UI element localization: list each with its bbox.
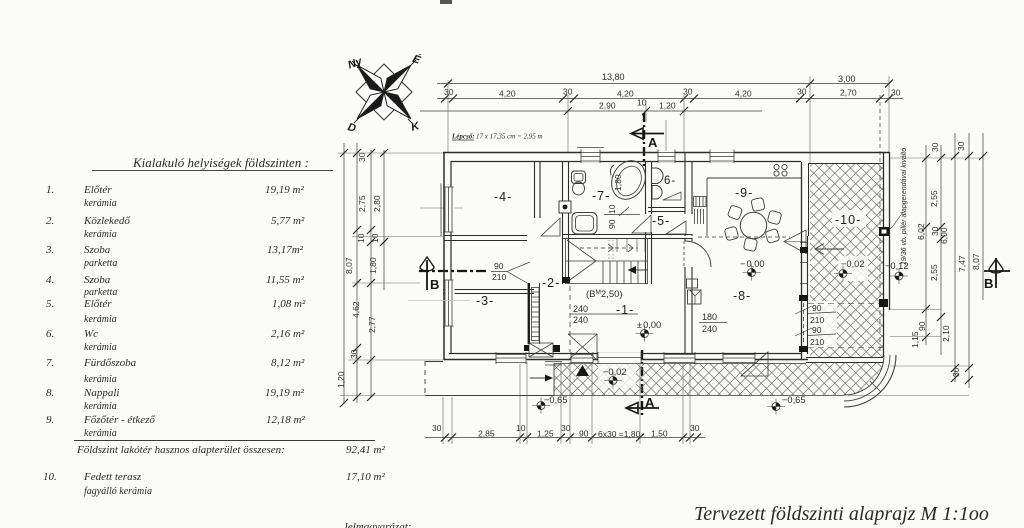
interior wall V4 (5,6 | 9) xyxy=(685,152,692,236)
walkway hatch xyxy=(554,363,844,395)
window bottom wall room8 b xyxy=(723,352,755,364)
top edge scan mark xyxy=(440,0,452,4)
black pillar room8 wall top xyxy=(799,295,808,301)
door arc room8 xyxy=(683,241,685,267)
top dimension extension lines xyxy=(448,76,889,163)
svg-text:10: 10 xyxy=(637,98,647,108)
kitchen counter line xyxy=(707,178,801,236)
svg-text:10: 10 xyxy=(356,233,366,243)
interior wall H1 (room4 bottom) xyxy=(444,236,534,241)
chair 2 xyxy=(751,197,765,211)
level -0,02 terrace xyxy=(834,259,865,282)
dashed extension at x880 xyxy=(879,95,881,163)
wc toilet room6 xyxy=(652,168,664,184)
row 4 xyxy=(46,274,54,286)
svg-text:2,10: 2,10 xyxy=(941,325,951,342)
svg-text:1,80: 1,80 xyxy=(613,174,623,191)
window top wall 1 xyxy=(577,148,604,164)
svg-text:30: 30 xyxy=(956,141,966,151)
wall top exterior xyxy=(443,152,889,154)
svg-text:2,85: 2,85 xyxy=(478,429,495,439)
window left wall room3 xyxy=(443,280,455,326)
top dimension line 2 (room chain) xyxy=(437,87,903,103)
level ±0,00 room1 xyxy=(636,320,662,342)
larder shelf (ladder symbol) xyxy=(532,288,540,341)
svg-text:210: 210 xyxy=(810,337,824,347)
wall left exterior xyxy=(443,152,445,360)
flue square with dot xyxy=(559,201,571,213)
svg-text:240: 240 xyxy=(702,324,717,334)
svg-text:210: 210 xyxy=(492,272,506,282)
terrace door swing triangle xyxy=(784,230,806,254)
black pillar terrace right lower xyxy=(879,299,888,307)
room8/terrace window mullion ticks xyxy=(800,243,808,284)
door dim 90/210 terrace upper xyxy=(810,303,824,347)
svg-text:6x30 =1,80: 6x30 =1,80 xyxy=(598,429,641,439)
svg-text:6-: 6- xyxy=(664,175,676,187)
svg-text:90: 90 xyxy=(579,429,589,439)
svg-text:2,75: 2,75 xyxy=(357,195,367,212)
dining table xyxy=(740,212,766,238)
interior wall 6|5 xyxy=(648,208,685,212)
section marker B left xyxy=(419,257,486,292)
svg-text:±0,00: ±0,00 xyxy=(637,320,661,330)
bathtub xyxy=(605,155,651,205)
svg-text:30: 30 xyxy=(951,367,961,377)
row 7 xyxy=(46,357,54,369)
svg-text:30: 30 xyxy=(357,152,367,162)
svg-text:19/36 vb. pillér alapgerendáva: 19/36 vb. pillér alapgerendával kiváltó xyxy=(901,148,908,265)
chair 3 xyxy=(767,210,782,225)
svg-text:D: D xyxy=(346,121,357,135)
svg-text:30: 30 xyxy=(930,142,940,152)
svg-text:1,50: 1,50 xyxy=(651,429,668,439)
right side rotated note xyxy=(901,148,908,265)
entrance opening xyxy=(598,352,641,364)
faint erased line left of plan xyxy=(408,300,470,302)
entrance approach arrow xyxy=(530,377,548,379)
row 8 xyxy=(46,387,54,399)
terrace right wall xyxy=(883,152,885,357)
right chain labels (rotated) xyxy=(910,141,981,377)
svg-text:−0,00: −0,00 xyxy=(740,259,765,269)
svg-text:1,80: 1,80 xyxy=(368,257,378,274)
svg-text:-5-: -5- xyxy=(652,214,670,228)
wall room8 right / terrace boundary xyxy=(801,162,803,360)
svg-text:−0,65: −0,65 xyxy=(544,395,568,405)
chair 4 xyxy=(765,228,780,243)
svg-text:2,55: 2,55 xyxy=(929,190,939,207)
row 10 xyxy=(43,471,57,483)
svg-text:K: K xyxy=(410,120,422,134)
level -0,65 right xyxy=(767,395,806,415)
svg-text:4,20: 4,20 xyxy=(617,89,634,99)
svg-text:-3-: -3- xyxy=(476,294,494,308)
row 2 xyxy=(46,215,54,227)
corner hatch wedge xyxy=(844,355,884,395)
svg-text:B: B xyxy=(984,276,993,291)
bottom dimension line xyxy=(425,423,705,442)
drawing title xyxy=(694,503,989,526)
chair 6 xyxy=(724,226,739,241)
stair note text xyxy=(451,133,543,141)
svg-text:4,62: 4,62 xyxy=(351,301,361,318)
toilet room7 xyxy=(572,171,586,195)
svg-text:13,80: 13,80 xyxy=(602,72,625,82)
svg-text:-7-: -7- xyxy=(592,189,610,203)
svg-text:90: 90 xyxy=(607,219,617,229)
svg-text:3,00: 3,00 xyxy=(838,74,856,84)
svg-text:6,00: 6,00 xyxy=(939,227,949,244)
svg-text:Lépcső:: Lépcső: xyxy=(451,133,475,141)
svg-text:90: 90 xyxy=(812,325,822,335)
room8 stove fixture xyxy=(687,279,702,304)
svg-text:-10-: -10- xyxy=(835,213,861,227)
svg-text:90: 90 xyxy=(917,321,927,331)
svg-text:-9-: -9- xyxy=(735,186,753,200)
door swing triangle room4 xyxy=(541,218,560,236)
row 6 xyxy=(46,328,54,340)
svg-text:8,07: 8,07 xyxy=(344,257,354,274)
left chain labels (rotated) xyxy=(336,152,382,388)
svg-text:−0,65: −0,65 xyxy=(782,395,806,405)
black pillar room8 wall upper xyxy=(800,247,808,253)
svg-text:30: 30 xyxy=(683,87,693,97)
note leader line xyxy=(888,212,903,231)
svg-text:90: 90 xyxy=(812,303,822,313)
shower tray room7 xyxy=(572,213,597,235)
label clearings on hatch xyxy=(832,210,866,227)
black pillar stair corner xyxy=(562,277,570,283)
dashed room divider 9|8 xyxy=(698,236,790,238)
room list table (HTML text) xyxy=(0,0,1024,1)
window bottom wall room3 xyxy=(496,352,526,364)
svg-text:2,55: 2,55 xyxy=(929,264,939,281)
door swing triangle room5 xyxy=(632,215,651,233)
terrace door arrow xyxy=(815,248,844,250)
wall bottom exterior xyxy=(444,359,808,361)
svg-text:4,20: 4,20 xyxy=(499,89,516,99)
legend heading (clipped at page bottom) xyxy=(343,521,411,528)
svg-text:A: A xyxy=(648,135,658,150)
svg-text:A: A xyxy=(645,395,655,410)
interior wall V2 (bath left) xyxy=(563,162,569,284)
window top wall 2 xyxy=(658,150,675,164)
right dimension chain verticals xyxy=(922,133,987,388)
row 5 xyxy=(46,298,54,310)
svg-text:10: 10 xyxy=(607,204,617,214)
svg-text:8,07: 8,07 xyxy=(971,253,981,270)
lower patio outline xyxy=(425,362,554,396)
level ±0,00 room9 xyxy=(740,259,765,281)
entrance direction marker xyxy=(576,365,589,376)
hatched wall pier xyxy=(529,343,553,357)
interior wall V1 (rooms 4/3 | hall 2) xyxy=(535,162,541,218)
interior wall V3 (bath right) xyxy=(646,162,652,284)
svg-text:30: 30 xyxy=(349,349,359,359)
svg-text:210: 210 xyxy=(810,315,824,325)
corner arc steps xyxy=(844,355,896,407)
svg-text:10: 10 xyxy=(370,233,380,243)
row 1 xyxy=(46,184,54,196)
right chain extension ties xyxy=(848,158,983,396)
chair 5 xyxy=(743,237,757,251)
dashed divider corridor/room1 xyxy=(569,286,571,352)
svg-text:1,15: 1,15 xyxy=(910,331,920,348)
door dim 90/210 hall xyxy=(492,261,506,282)
chair 1 xyxy=(727,205,742,220)
row 3 xyxy=(46,244,54,256)
svg-text:30: 30 xyxy=(891,88,901,98)
svg-text:7,47: 7,47 xyxy=(957,255,967,272)
interior wall V5 (room8 left) xyxy=(685,238,692,353)
svg-text:−0,02: −0,02 xyxy=(841,259,865,269)
level -0,02 walkway xyxy=(603,367,627,389)
svg-text:1,20: 1,20 xyxy=(336,371,346,388)
svg-text:4,20: 4,20 xyxy=(735,89,752,99)
section marker A bottom xyxy=(626,350,659,416)
vent symbol bottom wall xyxy=(545,362,562,366)
top dimension line 3 (entrance detail) xyxy=(420,98,762,116)
bath rotated dims 1,80 and 10/90 xyxy=(607,174,623,229)
entrance threshold cross xyxy=(568,334,597,360)
svg-text:−0,12: −0,12 xyxy=(885,261,909,271)
top dimension line 1 (overall) xyxy=(437,72,893,88)
door swing triangle wc6 xyxy=(663,192,681,200)
svg-text:-4-: -4- xyxy=(494,190,512,204)
door dim 180/240 room8 xyxy=(702,312,717,334)
section marker A top xyxy=(631,113,664,166)
svg-text:(BM2,50): (BM2,50) xyxy=(586,289,623,300)
dashed door opening room8/terrace xyxy=(803,303,805,344)
svg-text:6,02: 6,02 xyxy=(916,223,926,240)
window bottom wall room8 a xyxy=(664,352,695,364)
svg-text:2,77: 2,77 xyxy=(367,316,377,333)
total separator line xyxy=(74,440,375,441)
svg-text:17 x 17,35 cm = 2,95 m: 17 x 17,35 cm = 2,95 m xyxy=(476,133,543,141)
walkway bottom edge xyxy=(554,364,844,396)
svg-text:2,80: 2,80 xyxy=(372,195,382,212)
bottom extension lines xyxy=(443,362,690,444)
ceiling height note xyxy=(586,289,623,300)
svg-text:30: 30 xyxy=(432,423,442,433)
svg-text:180: 180 xyxy=(702,312,717,322)
left dimension chain verticals xyxy=(340,143,388,407)
door swing triangle room5b xyxy=(666,221,686,234)
svg-text:−0,02: −0,02 xyxy=(603,367,627,377)
svg-text:30: 30 xyxy=(561,423,571,433)
table header xyxy=(133,155,309,171)
level -0,12 outside right xyxy=(885,261,909,284)
left chain extension ties xyxy=(338,153,463,396)
level -0,65 left xyxy=(532,395,568,414)
black pillar room8 wall bottom xyxy=(799,346,808,352)
dashed line inside terrace xyxy=(879,166,881,355)
svg-text:2,90: 2,90 xyxy=(599,101,616,111)
svg-text:1,20: 1,20 xyxy=(659,101,676,111)
svg-text:-1-: -1- xyxy=(616,303,634,317)
door swing triangle terrace s xyxy=(741,352,768,376)
total row xyxy=(77,444,285,456)
compass rose xyxy=(346,52,422,135)
svg-text:240: 240 xyxy=(573,315,588,325)
svg-text:90: 90 xyxy=(494,261,504,271)
interior wall H2 (room3 top) xyxy=(443,290,534,294)
svg-text:É: É xyxy=(411,52,423,67)
svg-text:B: B xyxy=(430,277,439,292)
stove burners xyxy=(774,164,787,176)
svg-text:30: 30 xyxy=(797,87,807,97)
svg-text:-2-: -2- xyxy=(542,276,560,290)
svg-text:-8-: -8- xyxy=(733,289,751,303)
svg-text:1,25: 1,25 xyxy=(537,429,554,439)
row 9 xyxy=(46,414,54,426)
section marker B right xyxy=(984,258,1010,291)
black pillar terrace right xyxy=(879,227,889,236)
header underline xyxy=(92,170,333,171)
interior wall bath bottom xyxy=(562,235,692,239)
svg-text:30: 30 xyxy=(444,87,454,97)
terrace 10 hatch xyxy=(810,163,883,357)
window left wall room4 xyxy=(441,184,455,237)
svg-text:2,70: 2,70 xyxy=(840,88,857,98)
terrace axis dashed lines xyxy=(808,304,888,348)
radiator room9 xyxy=(694,197,707,225)
svg-text:10: 10 xyxy=(516,423,526,433)
window top wall 3 xyxy=(710,150,734,164)
window bottom wall room1 xyxy=(571,352,593,364)
svg-text:240: 240 xyxy=(573,304,588,314)
svg-text:30: 30 xyxy=(690,423,700,433)
wc basin room6 xyxy=(652,186,662,200)
door dim 240/240 room1 xyxy=(573,304,588,325)
